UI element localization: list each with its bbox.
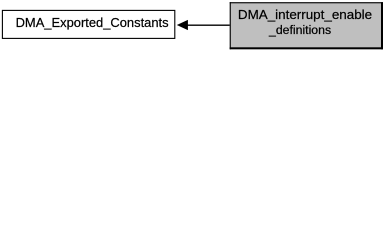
svg-text:DMA_interrupt_enable: DMA_interrupt_enable	[238, 7, 372, 22]
wire edge from DMA_interrupt_enable_definitions to DMA_Exported_Constants	[187, 24, 231, 26]
node DMA_interrupt_enable_definitions border bottom	[230, 47, 383, 49]
node DMA_Exported_Constants box	[2, 10, 174, 38]
node DMA_interrupt_enable_definitions border right	[381, 2, 383, 49]
arrowhead pointing left at DMA_Exported_Constants	[178, 20, 188, 29]
node DMA_interrupt_enable_definitions border top	[230, 2, 383, 3]
svg-text:DMA_Exported_Constants: DMA_Exported_Constants	[16, 15, 169, 30]
node DMA_interrupt_enable_definitions box (current, grey)	[230, 2, 383, 49]
node DMA_interrupt_enable_definitions border left	[230, 2, 231, 49]
background	[0, 0, 385, 52]
svg-text:_definitions: _definitions	[268, 23, 331, 37]
